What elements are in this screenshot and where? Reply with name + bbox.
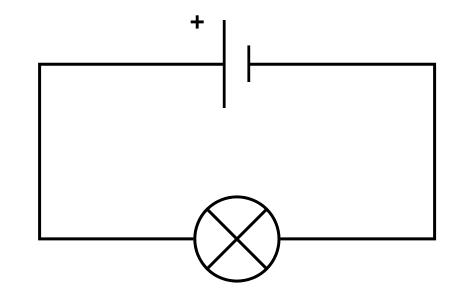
lamp L1: cross line NE-SW [207, 209, 267, 269]
battery B1: plus label [191, 15, 204, 28]
lamp L1: cross line NW-SE [207, 209, 267, 269]
battery B1: positive plate (long) [223, 20, 226, 108]
battery B1: negative plate (short) [247, 45, 250, 82]
lamp L1: circle [195, 197, 279, 281]
wire: right loop (battery negative to lamp right) [249, 64, 435, 239]
wire: left loop (battery positive to lamp left) [40, 64, 225, 239]
